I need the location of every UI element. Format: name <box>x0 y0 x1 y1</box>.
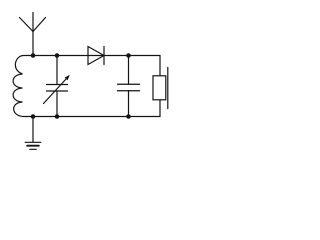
node capacitor top junction <box>126 53 131 58</box>
wire top horizontal <box>33 55 160 57</box>
wire bottom horizontal <box>33 116 160 118</box>
capacitor C1 top lead <box>128 56 130 85</box>
variable capacitor bottom lead <box>56 91 58 117</box>
wire right vertical lower <box>159 100 161 117</box>
ground bars <box>25 142 41 149</box>
variable capacitor arrow <box>44 75 70 104</box>
node varicap top junction <box>55 53 60 58</box>
ground stem <box>32 117 34 143</box>
diode D1 cathode bar <box>103 47 105 65</box>
variable capacitor plates <box>47 85 68 92</box>
wire right vertical upper <box>159 56 161 76</box>
node capacitor bottom junction <box>126 114 131 119</box>
earphone body <box>153 76 166 100</box>
node varicap bottom junction <box>55 114 60 119</box>
inductor L1 <box>13 56 33 117</box>
capacitor C1 bottom lead <box>128 91 130 117</box>
earphone side line <box>167 68 169 109</box>
antenna <box>20 13 46 56</box>
capacitor C1 plates <box>118 84 140 91</box>
variable capacitor top lead <box>56 56 58 85</box>
node antenna/coil top junction <box>31 53 36 58</box>
diode D1 triangle <box>88 47 104 65</box>
node coil/ground bottom junction <box>31 114 36 119</box>
